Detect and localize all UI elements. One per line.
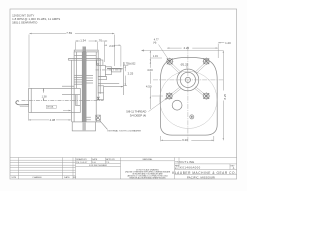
mount hole BR [203, 92, 211, 100]
svg-text:1801:1 GEAR RATIO: 1801:1 GEAR RATIO [12, 21, 38, 25]
svg-text:T.K.: T.K. [106, 162, 110, 164]
motor centerline [22, 100, 104, 102]
big boss circle [160, 71, 217, 128]
small gear circle [172, 100, 182, 110]
dim 1.00 vertical small [150, 51, 162, 62]
sheet frame [10, 9, 237, 179]
label box on motor [46, 105, 56, 109]
hub centerline [96, 69, 122, 71]
svg-text:(4): (4) [153, 41, 156, 44]
dim 1.20 text [225, 41, 231, 45]
dim 1.20 top right [218, 42, 224, 58]
dim 4.20 top [167, 47, 218, 48]
dim 6.56 line [142, 50, 224, 62]
small arrow to gearbox face [63, 110, 71, 111]
svg-text:NO.: NO. [175, 168, 179, 170]
callout 1.750 [124, 63, 136, 66]
spokes to holes [171, 64, 206, 96]
gearbox top flange plate [68, 55, 100, 60]
bottom hole centerline stub [152, 95, 164, 97]
vertical centerline [187, 47, 189, 142]
svg-text:OUTLINE: OUTLINE [180, 160, 195, 164]
gearbox left ribs [74, 75, 86, 84]
svg-text:4.50: 4.50 [146, 84, 152, 88]
mount hole TL [166, 58, 174, 66]
svg-text:DATE: DATE [92, 158, 98, 161]
dim 4.20 text [184, 46, 190, 50]
lower mount tab [86, 115, 100, 120]
svg-text:EXTERNAL TOOTH LOCKWASHER: EXTERNAL TOOTH LOCKWASHER [108, 129, 142, 132]
dim 1.34 line [75, 40, 97, 50]
gearbox obround outline [160, 57, 217, 135]
dim 8.25 right [223, 51, 224, 141]
svg-text:DECAL: DECAL [47, 106, 55, 109]
dim 4.38 under motor [29, 113, 71, 120]
gearbox right ribs [86, 76, 93, 84]
dim 6.20 bottom [161, 136, 214, 141]
thread note leader [148, 98, 167, 112]
svg-text:APPD BY: APPD BY [106, 158, 115, 161]
dim 4.50 text [146, 84, 152, 88]
svg-text:CHANGE: CHANGE [32, 176, 42, 179]
svg-text:.70: .70 [98, 38, 102, 42]
mount hole BL [166, 92, 174, 100]
dim 1.38 text [42, 95, 47, 98]
dim 4.38 text [50, 118, 56, 122]
svg-text:8.25: 8.25 [223, 93, 227, 99]
gearbox top cap [74, 50, 98, 52]
approval mini table [76, 158, 121, 180]
dim 1.38 vertical [43, 88, 44, 100]
title cells [175, 158, 237, 175]
lockwasher note text [108, 129, 142, 132]
svg-text:KLAUBER MACHINE & GEAR CO.: KLAUBER MACHINE & GEAR CO. [172, 171, 236, 175]
svg-text:2.03: 2.03 [109, 44, 115, 48]
note text line 3 [12, 21, 38, 25]
mount hole TR [203, 57, 211, 65]
title cell labels [172, 160, 236, 180]
dim 2.03 text [109, 44, 115, 48]
leader to lockwasher note [100, 121, 108, 130]
hole callout 4.77 [153, 39, 159, 45]
svg-text:DRAWN BY: DRAWN BY [76, 158, 87, 161]
approval mini table labels [76, 158, 115, 167]
output shaft band [82, 47, 86, 131]
svg-text:P.H. 10-8-97: P.H. 10-8-97 [76, 162, 88, 164]
revision table [10, 158, 76, 180]
note text line 1 [12, 13, 34, 17]
dim 7.59 line [29, 33, 114, 88]
dim 4.00 text [147, 68, 153, 72]
horizontal centerline [153, 79, 225, 81]
motor wires [16, 101, 29, 107]
svg-text:REMOVE ALL BURRS AND SHARP EDG: REMOVE ALL BURRS AND SHARP EDGES [129, 177, 166, 180]
svg-text:7.59: 7.59 [66, 31, 72, 35]
motor body [16, 88, 104, 112]
output hub circles [177, 69, 199, 91]
svg-text:6.20: 6.20 [182, 138, 188, 142]
svg-text:MATERIAL: MATERIAL [143, 158, 154, 161]
dim 1.00 text [153, 55, 158, 58]
svg-text:4.38: 4.38 [50, 118, 56, 122]
svg-text:D.H.: D.H. [92, 162, 96, 164]
svg-text:Ø1.25: Ø1.25 [181, 62, 189, 66]
svg-text:1.38: 1.38 [42, 95, 47, 98]
svg-text:2.25: 2.25 [128, 72, 134, 76]
dim .70 [102, 40, 107, 62]
small hole bottom [190, 115, 194, 119]
dim 2.03 [104, 45, 121, 67]
dim 4.00 left [150, 61, 151, 109]
title strip top line [10, 157, 237, 159]
svg-text:3/4 DEEP (4): 3/4 DEEP (4) [130, 113, 146, 117]
note text line 2 [12, 17, 60, 21]
dim 6.20 text [182, 138, 188, 142]
svg-text:4.20: 4.20 [184, 46, 190, 50]
thread note [126, 110, 146, 118]
worm input hub flange [86, 60, 123, 130]
dim 2.25 left [123, 66, 128, 86]
svg-text:SYM: SYM [11, 177, 16, 179]
svg-text:1.20: 1.20 [225, 41, 231, 45]
revision table labels [11, 176, 76, 179]
gearbox bottom cap [72, 122, 101, 131]
svg-text:FOR REF NUMBER: FOR REF NUMBER [89, 165, 108, 167]
gearbox housing body [62, 52, 100, 122]
svg-text:1.750±.002: 1.750±.002 [124, 63, 136, 66]
shaft callout 1.25 [181, 62, 189, 71]
svg-text:K01466A000: K01466A000 [180, 166, 201, 170]
svg-text:DATE: DATE [64, 176, 70, 179]
svg-text:PACIFIC, MISSOURI: PACIFIC, MISSOURI [187, 175, 215, 179]
dim 7.59 text [66, 31, 72, 35]
dim 2.25 text [128, 72, 134, 76]
dim 8.25 text [223, 93, 227, 99]
upper mount tab [97, 83, 123, 100]
svg-text:4.00: 4.00 [147, 68, 153, 72]
hole callout leader [159, 45, 169, 60]
tolerance block labels [125, 158, 171, 179]
svg-text:1.19: 1.19 [153, 55, 158, 58]
svg-text:1.34: 1.34 [80, 38, 86, 42]
dim .70 text [98, 38, 102, 42]
tolerance note block [121, 158, 175, 180]
hub diameter dim lines [107, 62, 123, 95]
dim 1.34 text [80, 38, 86, 42]
